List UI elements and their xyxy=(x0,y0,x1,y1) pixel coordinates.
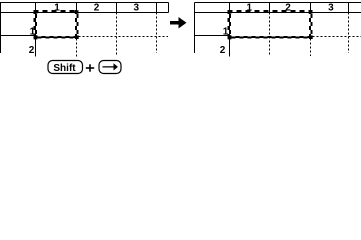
plus sign xyxy=(86,64,94,71)
right grid row1 bottom solid segment xyxy=(195,35,230,37)
left grid row1 bottom solid segment xyxy=(0,35,36,37)
right selection corner blob top-left xyxy=(228,10,232,13)
svg-text:2: 2 xyxy=(29,45,35,56)
left selection marquee left edge col B xyxy=(35,10,37,39)
left selection corner blob bottom-left xyxy=(34,35,38,39)
left grid header bottom line xyxy=(0,12,169,14)
right-arrow key cap xyxy=(99,61,121,74)
Shift key cap xyxy=(48,61,83,74)
left selection marquee left edge col A xyxy=(33,10,35,39)
left grid column line col2/col3 dotted part xyxy=(116,13,118,57)
left grid row1 bottom dotted segment xyxy=(79,36,169,38)
svg-text:Shift: Shift xyxy=(53,63,76,74)
svg-text:3: 3 xyxy=(328,3,334,14)
right selection marquee bottom edge row A xyxy=(228,36,313,38)
left selection marquee bottom edge row A xyxy=(34,36,79,38)
left grid column line col2/col3 solid header part xyxy=(116,3,118,13)
right selection marquee right edge col B xyxy=(311,10,313,39)
left grid right cut edge xyxy=(168,3,170,13)
left grid row-header column line xyxy=(35,3,37,57)
left selection marquee bottom edge row B xyxy=(34,37,79,39)
left selection corner blob top-left xyxy=(34,10,38,13)
left selection corner blob bottom-right xyxy=(75,35,79,39)
right grid column line col1/col2 solid header part xyxy=(269,3,271,13)
svg-text:2: 2 xyxy=(220,45,226,56)
left grid column line col3 right solid header part xyxy=(156,3,158,13)
right grid column line col3 right solid header part xyxy=(348,3,350,13)
right selection marquee top edge dashes xyxy=(228,10,313,12)
left grid column line col1/col2 solid header part xyxy=(76,3,78,13)
transition arrow xyxy=(170,17,187,29)
right grid column line col2/col3 solid header part xyxy=(310,3,312,13)
right grid row1 bottom dotted segment xyxy=(313,36,361,38)
right grid column line col3 right dotted part xyxy=(348,13,350,54)
right selection corner blob top-right xyxy=(309,10,313,13)
left grid top border xyxy=(0,2,169,4)
right grid top border xyxy=(195,2,361,4)
right selection marquee left edge col A xyxy=(227,10,229,39)
right grid left border xyxy=(194,3,196,54)
left grid column line col1/col2 dotted part xyxy=(76,39,78,58)
left selection marquee right edge col B xyxy=(77,10,79,39)
right-arrow key glyph xyxy=(103,63,118,70)
right grid header bottom line xyxy=(195,12,361,14)
right selection marquee right edge col A xyxy=(309,10,311,39)
right selection corner blob bottom-left xyxy=(228,35,232,39)
right selection marquee left edge col B xyxy=(229,10,231,39)
right grid column line col2/col3 dotted part xyxy=(310,39,312,57)
left grid left border xyxy=(0,3,2,54)
right selection marquee bottom edge row B xyxy=(228,37,313,39)
left grid column line col3 right dotted part xyxy=(156,13,158,54)
svg-text:2: 2 xyxy=(94,3,100,14)
right grid column line col1/col2 dotted part xyxy=(269,13,271,57)
svg-text:3: 3 xyxy=(134,3,140,14)
right selection corner blob bottom-right xyxy=(309,35,313,39)
left selection marquee right edge col A xyxy=(75,10,77,39)
left selection corner blob top-right xyxy=(75,10,79,13)
right grid row-header column line xyxy=(229,3,231,57)
left selection marquee top edge dashes xyxy=(34,10,79,12)
